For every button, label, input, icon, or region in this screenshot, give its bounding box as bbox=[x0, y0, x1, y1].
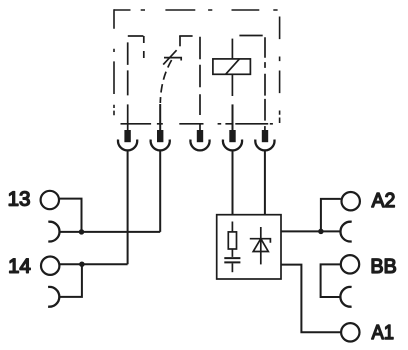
relay inner dashed left edge to pin 1 bbox=[127, 42, 129, 95]
contact movable arm (dashed) bbox=[160, 60, 171, 103]
wire junction14 down to 14 socket bbox=[59, 264, 82, 297]
wire plug4 down to suppressor box bbox=[232, 151, 234, 215]
plug pin 2 bbox=[157, 130, 163, 142]
terminal circle 13 bbox=[41, 191, 59, 209]
junction dot 13 bbox=[79, 229, 85, 235]
wire pin2 solid bbox=[159, 104, 161, 131]
terminal circle 14 bbox=[41, 257, 59, 275]
label 14 bbox=[10, 259, 31, 273]
terminal circle A2 bbox=[342, 192, 360, 210]
wire BB bracket bbox=[321, 264, 341, 297]
junction dot A2 bbox=[318, 229, 324, 235]
junction dot 14 bbox=[79, 261, 85, 267]
terminal circle BB bbox=[341, 255, 359, 273]
wire plug5 down to suppressor box bbox=[264, 151, 266, 215]
terminal circle A1 bbox=[341, 323, 359, 341]
capacitor C plate 1 bbox=[224, 257, 240, 259]
module outline left edge bbox=[113, 9, 115, 115]
coil diagonal bbox=[226, 59, 240, 74]
coil bottom lead bbox=[231, 74, 233, 96]
wire pin4 solid bbox=[232, 104, 234, 131]
plug socket 4 bbox=[223, 140, 242, 151]
relay inner dashed right edge to pin 5 bbox=[264, 37, 266, 120]
label A1 bbox=[372, 325, 394, 339]
contact slash bbox=[163, 50, 176, 64]
wire 13-socket row to plug2 bbox=[59, 231, 160, 233]
plug pin 4 bbox=[229, 130, 235, 142]
module outline (dash-dot box) top edge bbox=[114, 9, 278, 11]
plug pin 5 bbox=[262, 130, 268, 142]
module outline bottom edge bbox=[121, 123, 273, 125]
relay inner dashed stub right of small box bbox=[143, 36, 145, 59]
label BB bbox=[372, 259, 396, 273]
diode V lead bbox=[260, 227, 262, 264]
contact top terminal stub bbox=[179, 36, 181, 46]
resistor-capacitor lead bbox=[231, 249, 233, 257]
wire from 13 to junction bbox=[59, 199, 81, 232]
plug socket 1 bbox=[118, 140, 137, 151]
wire from 14 to plug1 line bbox=[60, 263, 128, 265]
wire A2 circle bracket bbox=[321, 199, 341, 232]
diode cathode bar with hook bbox=[250, 239, 271, 243]
relay coil K1 bbox=[213, 59, 251, 74]
coil top lead bbox=[231, 39, 233, 59]
wire plug1 down to 14 row bbox=[127, 151, 129, 264]
contact fixed bar bbox=[164, 58, 181, 61]
plug pin 1 bbox=[124, 130, 130, 142]
capacitor C plate 2 bbox=[224, 261, 240, 263]
capacitor bottom stub bbox=[231, 263, 233, 272]
plug socket 5 bbox=[255, 140, 274, 151]
plug pin 3 bbox=[197, 130, 203, 142]
label 13 bbox=[9, 191, 29, 205]
wire box to A2 row bbox=[281, 230, 341, 232]
contact top corner dashed segment bbox=[179, 35, 192, 37]
wire pin3 solid bbox=[199, 123, 201, 131]
terminal socket 14 bbox=[48, 287, 59, 307]
relay dashed divider to pin 3 bbox=[199, 37, 201, 115]
relay inner dashed top segment right bbox=[239, 35, 262, 37]
terminal socket A2 bbox=[340, 222, 351, 242]
resistor R lead top bbox=[231, 222, 233, 232]
plug socket 3 bbox=[190, 140, 209, 151]
terminal socket BB bbox=[340, 287, 351, 307]
diode triangle bbox=[253, 239, 268, 252]
terminal socket 13 bbox=[48, 222, 59, 242]
wire pin5 solid bbox=[264, 126, 266, 131]
wire plug2 down to 13 row bbox=[159, 151, 161, 232]
relay inner dashed box top segment left bbox=[128, 35, 144, 37]
label A2 bbox=[372, 193, 395, 207]
module outline right edge bbox=[279, 17, 281, 124]
plug socket 2 bbox=[151, 140, 170, 151]
wire pin1 upper solid bbox=[127, 104, 129, 131]
resistor R bbox=[228, 232, 236, 249]
wire box to A1 bbox=[281, 265, 341, 333]
suppressor box bbox=[217, 215, 281, 279]
